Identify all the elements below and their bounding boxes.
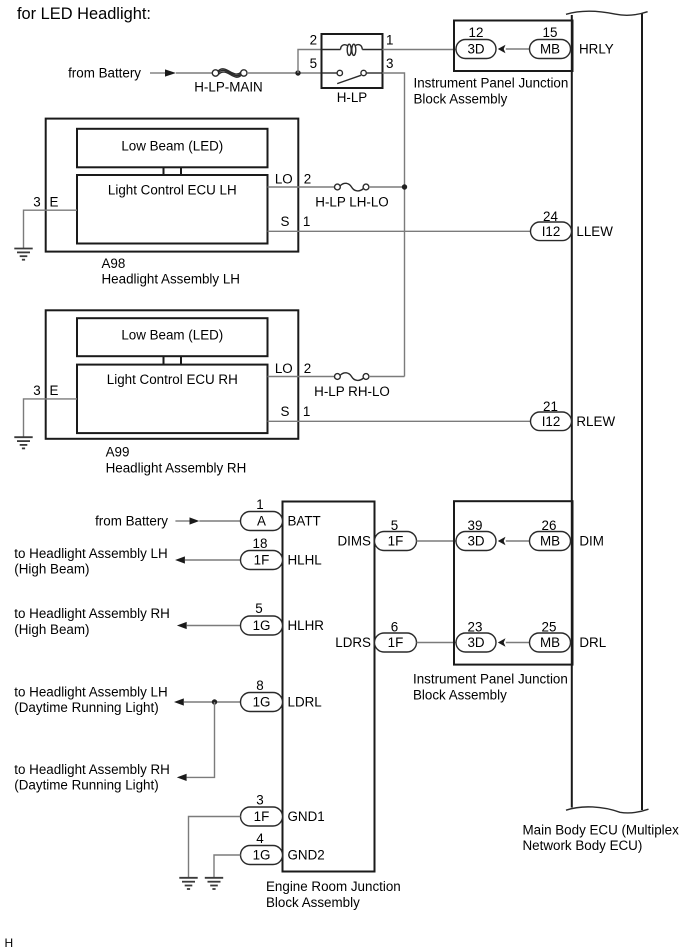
Headlight Assembly LH outer box [46, 119, 299, 252]
svg-text:DIM: DIM [579, 534, 604, 549]
svg-text:Block Assembly: Block Assembly [414, 92, 508, 107]
wire fuse to vertical branch RH [369, 376, 405, 378]
Main Body ECU top wavy edge [566, 11, 648, 15]
svg-text:18: 18 [253, 536, 268, 551]
svg-text:Engine Room Junction: Engine Room Junction [266, 879, 401, 894]
connector 1F (HLHL) [241, 551, 283, 570]
svg-text:1G: 1G [253, 618, 271, 633]
connector MB (DIM) [530, 532, 571, 551]
svg-text:to Headlight Assembly RH: to Headlight Assembly RH [14, 762, 170, 777]
wire arrow to MB [506, 48, 530, 50]
Instrument Panel Junction Block box (top) [454, 21, 573, 72]
svg-text:H-LP RH-LO: H-LP RH-LO [314, 384, 390, 399]
wire branch up to relay pin 2 [298, 50, 322, 74]
connector 1F (DIMS) [375, 532, 417, 551]
connector 1F (GND1) [241, 807, 283, 826]
svg-text:3: 3 [33, 383, 40, 398]
relay coil wires [322, 49, 341, 51]
wire LO to fuse RH [268, 376, 335, 378]
svg-text:1G: 1G [253, 695, 271, 710]
connector 1G (LDRL) [241, 693, 283, 712]
junction node LDRL branch [212, 699, 217, 704]
svg-text:Headlight Assembly LH: Headlight Assembly LH [102, 272, 240, 287]
svg-text:5: 5 [310, 56, 317, 71]
svg-text:HLHR: HLHR [288, 618, 325, 633]
svg-text:LO: LO [275, 361, 293, 376]
svg-text:DRL: DRL [579, 635, 606, 650]
svg-text:1: 1 [256, 497, 263, 512]
connection ticks between low beam and ECU LH [164, 167, 182, 175]
svg-text:3D: 3D [467, 42, 484, 57]
wire E to ground LH [24, 210, 78, 248]
svg-text:I12: I12 [542, 414, 561, 429]
wire relay pin 3 down to LO branches [383, 73, 405, 377]
arrow into 3D [498, 45, 506, 53]
svg-text:(Daytime Running Light): (Daytime Running Light) [14, 778, 158, 793]
connector 1G (HLHR) [241, 616, 283, 635]
svg-text:1F: 1F [254, 553, 270, 568]
Engine Room Junction Block box [283, 502, 375, 872]
wire GND1 to ground [189, 817, 241, 878]
svg-text:1F: 1F [388, 534, 404, 549]
svg-text:S: S [281, 214, 290, 229]
svg-text:Main Body ECU (Multiplex: Main Body ECU (Multiplex [523, 823, 680, 838]
relay switch contact wires [322, 72, 338, 74]
connector 3D (DIM) [456, 532, 496, 551]
svg-text:3: 3 [33, 194, 40, 209]
svg-text:2: 2 [310, 33, 317, 48]
connector 3D (HRLY) [456, 40, 496, 59]
Low Beam (LED) box LH [77, 129, 268, 168]
Main Body ECU label [523, 823, 680, 854]
svg-text:LLEW: LLEW [576, 224, 613, 239]
Main Body ECU left bar line [571, 15, 573, 808]
relay switch contacts and blade [337, 70, 366, 83]
svg-text:DIMS: DIMS [338, 534, 372, 549]
arrow into 3D (DIM) [498, 537, 506, 545]
svg-text:Light Control ECU RH: Light Control ECU RH [107, 372, 238, 387]
Instrument Panel Junction Block label (lower) [413, 672, 568, 703]
wire relay pin 1 to connector 3D [383, 49, 457, 51]
relay coil [341, 44, 363, 55]
Main Body ECU right bar line [641, 14, 643, 811]
svg-text:4: 4 [256, 831, 264, 846]
Light Control ECU LH box [77, 175, 268, 244]
svg-text:GND2: GND2 [288, 848, 325, 863]
svg-text:A98: A98 [102, 256, 126, 271]
arrow to headlight LH DRL [174, 698, 241, 705]
svg-text:1: 1 [303, 404, 310, 419]
svg-text:39: 39 [468, 518, 483, 533]
svg-text:Low Beam (LED): Low Beam (LED) [121, 328, 223, 343]
arrow into 3D (DRL) [498, 638, 506, 646]
svg-text:Instrument Panel Junction: Instrument Panel Junction [414, 76, 569, 91]
svg-text:H-LP: H-LP [337, 90, 368, 105]
wire GND2 to ground [214, 855, 241, 878]
connector 1G (GND2) [241, 846, 283, 865]
wire arrow to MB (DIM) [506, 540, 530, 542]
connector I12 (RLEW) [531, 412, 572, 431]
arrow to headlight LH high beam [175, 556, 240, 563]
svg-text:Headlight Assembly RH: Headlight Assembly RH [106, 460, 247, 475]
connector 3D (DRL) [456, 633, 496, 652]
svg-text:6: 6 [391, 620, 398, 635]
wire DIMS to 3D [417, 540, 457, 542]
connector A (BATT) [241, 512, 283, 531]
wire battery to fusible link [176, 72, 212, 74]
Light Control ECU RH box [77, 365, 268, 434]
connector MB (DRL) [530, 633, 571, 652]
svg-text:1G: 1G [253, 848, 271, 863]
svg-text:(High Beam): (High Beam) [14, 622, 89, 637]
A99 label [106, 445, 247, 476]
svg-text:2: 2 [304, 171, 311, 186]
svg-text:MB: MB [540, 42, 560, 57]
svg-text:GND1: GND1 [288, 809, 325, 824]
wire LO to fuse LH [268, 186, 335, 188]
fusible link H-LP-MAIN [194, 69, 262, 95]
svg-text:23: 23 [468, 620, 483, 635]
connector MB (HRLY) [530, 40, 571, 59]
svg-text:A: A [257, 514, 266, 529]
svg-text:Low Beam (LED): Low Beam (LED) [121, 139, 223, 154]
wire arrow to MB (DRL) [506, 642, 530, 644]
svg-text:for LED Headlight:: for LED Headlight: [17, 5, 151, 23]
connection ticks between low beam and ECU RH [164, 356, 182, 364]
junction node LO branch [402, 184, 407, 189]
svg-text:HLHL: HLHL [288, 553, 322, 568]
svg-text:3D: 3D [467, 534, 484, 549]
svg-text:LDRL: LDRL [288, 695, 322, 710]
wire S to I12 LLEW [268, 230, 531, 232]
ground GND1 [179, 878, 197, 889]
Headlight Assembly RH outer box [46, 310, 299, 439]
relay H-LP box [322, 34, 383, 88]
svg-text:from Battery: from Battery [95, 513, 168, 528]
svg-text:Block Assembly: Block Assembly [413, 688, 507, 703]
svg-text:15: 15 [543, 25, 558, 40]
arrow to headlight RH DRL [177, 774, 187, 781]
Main Body ECU bottom wavy edge [566, 807, 649, 813]
svg-text:Network Body ECU): Network Body ECU) [523, 838, 643, 853]
svg-text:5: 5 [391, 518, 398, 533]
fuse H-LP RH-LO [314, 373, 390, 399]
arrow from battery (right-pointing) [150, 69, 176, 76]
svg-text:(High Beam): (High Beam) [14, 562, 89, 577]
svg-text:MB: MB [540, 534, 560, 549]
svg-text:3D: 3D [467, 635, 484, 650]
svg-text:S: S [281, 404, 290, 419]
svg-text:Block Assembly: Block Assembly [266, 895, 360, 910]
svg-text:RLEW: RLEW [576, 414, 615, 429]
wire S to I12 RLEW [268, 420, 531, 422]
svg-text:5: 5 [255, 601, 262, 616]
svg-text:3: 3 [386, 56, 393, 71]
to Headlight Assembly LH (High Beam) label [14, 546, 167, 577]
svg-text:Instrument Panel Junction: Instrument Panel Junction [413, 672, 568, 687]
svg-text:1F: 1F [254, 809, 270, 824]
svg-text:H-LP LH-LO: H-LP LH-LO [315, 194, 388, 209]
svg-text:(Daytime Running Light): (Daytime Running Light) [14, 700, 158, 715]
connector I12 (LLEW) [531, 222, 572, 241]
svg-text:H-LP-MAIN: H-LP-MAIN [194, 79, 262, 94]
to Headlight Assembly RH (High Beam) label [14, 606, 170, 637]
svg-text:HRLY: HRLY [579, 41, 614, 56]
svg-text:26: 26 [542, 518, 557, 533]
svg-text:25: 25 [542, 620, 557, 635]
svg-text:H: H [5, 936, 14, 950]
wire fusible link to relay pin 5 [247, 72, 322, 74]
wire to connector A [199, 520, 240, 522]
Engine Room Junction Block label [266, 879, 401, 910]
Instrument Panel Junction Block box (lower) [454, 501, 573, 664]
ground LH [14, 249, 32, 260]
arrow from battery to BATT [175, 517, 199, 524]
svg-text:3: 3 [256, 793, 263, 808]
Low Beam (LED) box RH [77, 318, 268, 356]
wire E to ground RH [24, 399, 78, 437]
svg-text:I12: I12 [542, 224, 561, 239]
to Headlight Assembly LH (Daytime Running Light) label [14, 684, 167, 715]
svg-text:from Battery: from Battery [68, 65, 141, 80]
svg-text:1F: 1F [388, 635, 404, 650]
ground RH [14, 437, 32, 448]
svg-text:8: 8 [256, 678, 263, 693]
svg-text:BATT: BATT [288, 514, 321, 529]
wire branch down to RH DRL [187, 702, 215, 777]
svg-text:1: 1 [303, 214, 310, 229]
svg-text:E: E [50, 194, 59, 209]
to Headlight Assembly RH (Daytime Running Light) label [14, 762, 170, 793]
svg-text:LO: LO [275, 171, 293, 186]
wire fuse to junction LH [369, 186, 405, 188]
svg-text:A99: A99 [106, 445, 130, 460]
svg-text:E: E [50, 383, 59, 398]
svg-text:Light Control ECU LH: Light Control ECU LH [108, 183, 237, 198]
junction node at battery branch [295, 70, 300, 75]
connector 1F (LDRS) [375, 633, 417, 652]
svg-text:to Headlight Assembly LH: to Headlight Assembly LH [14, 684, 167, 699]
ground GND2 [205, 878, 223, 889]
svg-text:12: 12 [469, 25, 484, 40]
Instrument Panel Junction Block label (top) [414, 76, 569, 107]
svg-text:to Headlight Assembly RH: to Headlight Assembly RH [14, 606, 170, 621]
fuse H-LP LH-LO [315, 183, 388, 209]
arrow to headlight RH high beam [177, 622, 241, 629]
svg-text:to Headlight Assembly LH: to Headlight Assembly LH [14, 546, 167, 561]
wire LDRS to 3D [417, 642, 457, 644]
svg-text:2: 2 [304, 361, 311, 376]
svg-text:MB: MB [540, 635, 560, 650]
svg-text:1: 1 [386, 33, 393, 48]
A98 label [102, 256, 240, 287]
svg-text:LDRS: LDRS [335, 635, 371, 650]
